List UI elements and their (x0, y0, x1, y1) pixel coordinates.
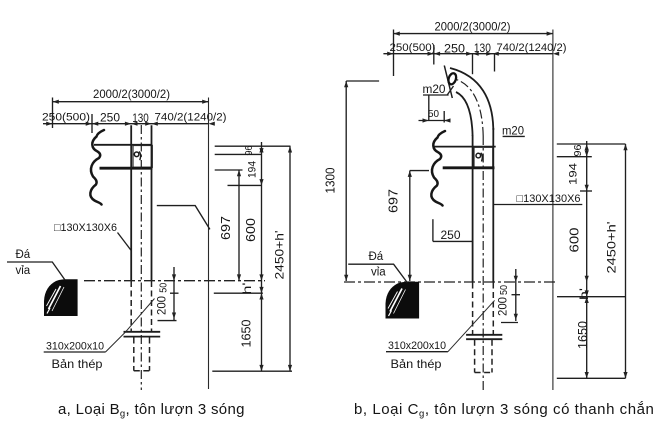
base plate fig a (124, 332, 161, 337)
svg-text:250: 250 (100, 111, 120, 125)
elbow outer arc fig b (450, 68, 493, 130)
label 310x200x10 Ban thep fig b (386, 340, 448, 371)
dimension 2450+h' fig b (605, 144, 628, 378)
W-beam rail profile fig b (431, 131, 445, 206)
bolt symbol fig a (134, 152, 140, 161)
label m20 top fig b (423, 84, 454, 96)
long extension line right fig b (552, 30, 554, 391)
post right line fig a (151, 125, 153, 281)
svg-text:b, Loại Cg, tôn lượn 3 sóng có: b, Loại Cg, tôn lượn 3 sóng có thanh chắ… (354, 401, 654, 420)
svg-text:130: 130 (474, 41, 491, 55)
label m20 right fig b (502, 126, 525, 138)
svg-text:m20: m20 (502, 126, 524, 138)
svg-text:600: 600 (567, 228, 582, 253)
curb block fig a (44, 279, 78, 316)
svg-text:1300: 1300 (324, 167, 338, 193)
label Da via fig a (7, 249, 65, 280)
ground line fig a (84, 280, 265, 282)
svg-text:1650: 1650 (240, 319, 254, 347)
extension line x=433.8 fig b (433, 45, 435, 65)
svg-text:697: 697 (218, 216, 233, 240)
svg-text:194: 194 (568, 163, 580, 185)
leader to plate fig b (448, 300, 495, 351)
svg-text:200: 200 (155, 296, 169, 315)
svg-text:Đá: Đá (16, 249, 31, 261)
bottom datum line fig a (212, 370, 292, 372)
dimension 2000/2(3000/2) fig b (394, 20, 553, 36)
dimension 697 fig b (386, 171, 430, 281)
svg-text:2450+h': 2450+h' (273, 231, 287, 280)
post right line fig b (492, 128, 494, 283)
post centerline fig a (140, 125, 142, 390)
post centerline fig b (482, 136, 484, 391)
label Da via fig b (348, 251, 407, 283)
svg-text:□130X130X6: □130X130X6 (517, 193, 581, 205)
dimension 2450+h' fig a (273, 146, 293, 371)
extension line x=92 fig a (91, 114, 93, 133)
bolt symbol fig b (476, 153, 482, 162)
post left line fig a (130, 125, 132, 281)
extension line left fig a (52, 98, 54, 129)
bracket top line fig a (94, 144, 152, 146)
dimension column 96/194/600/h'/1650 fig b (567, 141, 592, 378)
dimension 50/200 fig a (155, 267, 179, 321)
end cap ellipse m20 bolt fig b (447, 72, 457, 85)
dimension row 250(500)/250/130/740-2 fig a (42, 111, 227, 126)
dimension 2000/2(3000/2) fig a (53, 87, 209, 104)
rail attachment thick line fig a (100, 167, 153, 170)
svg-text:2000/2(3000/2): 2000/2(3000/2) (435, 20, 511, 34)
dimension 50/200 fig b (496, 269, 521, 323)
elbow inner arc fig b (456, 92, 473, 136)
post left line fig b (472, 135, 474, 283)
svg-text:697: 697 (386, 189, 401, 213)
dimension 50 fig b (419, 96, 451, 123)
svg-text:200: 200 (496, 297, 510, 316)
svg-text:2450+h': 2450+h' (605, 222, 619, 274)
svg-text:m20: m20 (423, 84, 446, 96)
svg-text:vỉa: vỉa (16, 265, 31, 277)
W-beam rail profile fig a (90, 130, 104, 205)
dimension 697 fig a (218, 170, 241, 281)
svg-text:250(500): 250(500) (390, 42, 436, 54)
svg-text:2000/2(3000/2): 2000/2(3000/2) (93, 87, 170, 101)
label 310x200x10 Ban thep fig a (44, 299, 155, 372)
svg-text:250: 250 (444, 42, 465, 56)
svg-text:Đá: Đá (369, 251, 384, 263)
svg-text:50: 50 (498, 285, 510, 295)
road surface line fig a (214, 292, 263, 294)
svg-text:1650: 1650 (576, 321, 590, 349)
bracket box fig b (474, 147, 493, 167)
bent leader fig a (157, 206, 210, 230)
svg-text:250(500): 250(500) (42, 112, 90, 124)
elbow end face fig b (444, 66, 452, 99)
svg-text:vỉa: vỉa (371, 267, 386, 279)
svg-text:740/2(1240/2): 740/2(1240/2) (155, 112, 227, 124)
svg-text:Bản thép: Bản thép (52, 357, 103, 371)
label 130x130x6 fig a (54, 222, 131, 250)
svg-text:310x200x10: 310x200x10 (46, 341, 104, 353)
svg-text:194: 194 (247, 161, 259, 178)
extension lines over elbow fig b (472, 54, 474, 74)
extension line left fig b (393, 30, 395, 77)
svg-text:50: 50 (428, 108, 439, 120)
svg-text:250: 250 (441, 228, 461, 242)
svg-text:a, Loại Bg, tôn lượn 3 sóng: a, Loại Bg, tôn lượn 3 sóng (58, 401, 245, 420)
base plate fig b (466, 335, 502, 339)
svg-text:130: 130 (132, 111, 149, 125)
curb block fig b (386, 282, 420, 319)
svg-text:96: 96 (573, 144, 584, 156)
elbow centerline fig b (453, 79, 483, 137)
svg-text:Bản thép: Bản thép (391, 357, 442, 371)
label 130x130x6 fig b (494, 193, 582, 205)
dimension 1300 fig b (324, 81, 380, 281)
bracket top line fig b (434, 146, 496, 148)
dimension 250 fig b (433, 219, 473, 242)
dimension column 96/194/600/h'/1650 fig a (240, 142, 264, 371)
long extension line right fig a (208, 98, 210, 390)
svg-text:310x200x10: 310x200x10 (388, 340, 446, 352)
extension lines right side fig a (215, 145, 291, 147)
buried stub fig a (134, 338, 150, 371)
bracket box fig a (133, 146, 152, 168)
bottom datum line fig b (557, 377, 626, 379)
svg-text:96: 96 (244, 145, 255, 155)
rail attachment thick line fig b (443, 166, 495, 169)
svg-text:600: 600 (243, 218, 258, 242)
svg-text:□130X130X6: □130X130X6 (54, 222, 117, 234)
buried stub fig b (475, 340, 492, 373)
svg-text:50: 50 (158, 283, 170, 293)
ground line fig b (344, 281, 557, 283)
road surface line fig b (557, 296, 626, 298)
extension lines right side fig b (557, 143, 626, 145)
svg-text:740/2(1240/2): 740/2(1240/2) (497, 42, 567, 54)
svg-text:h': h' (577, 288, 591, 300)
dimension row 250(500)/250/130/740-2 fig b (383, 41, 566, 56)
